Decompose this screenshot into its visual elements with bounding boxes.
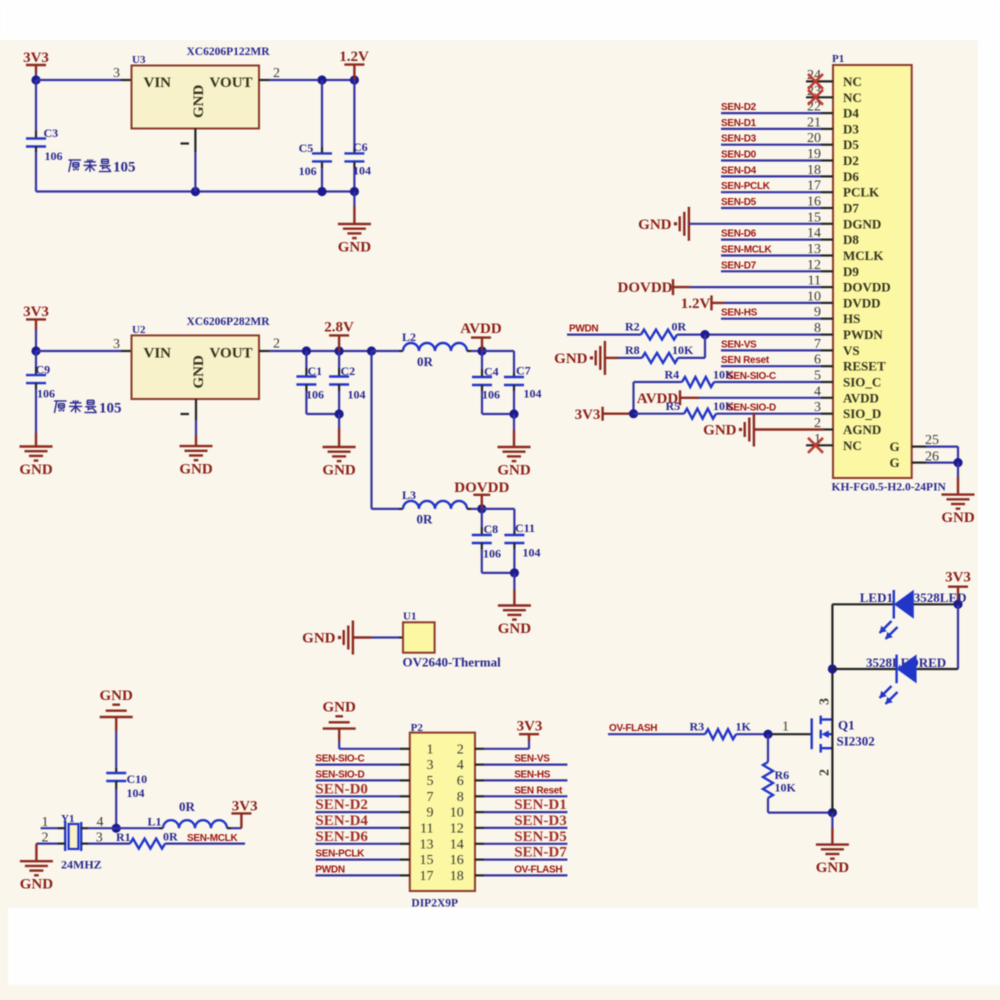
svg-text:DOVDD: DOVDD (618, 280, 673, 296)
svg-text:3V3: 3V3 (232, 799, 258, 815)
svg-text:18: 18 (450, 869, 464, 884)
svg-text:17: 17 (420, 869, 434, 884)
svg-text:3: 3 (427, 758, 434, 773)
svg-text:SEN-PCLK: SEN-PCLK (721, 181, 771, 192)
svg-text:DGND: DGND (843, 216, 881, 231)
svg-text:3528LED: 3528LED (914, 590, 967, 605)
svg-text:D7: D7 (843, 201, 859, 216)
svg-text:SEN-VS: SEN-VS (514, 754, 550, 765)
svg-text:C4: C4 (484, 365, 499, 379)
svg-text:SEN-MCLK: SEN-MCLK (187, 833, 238, 844)
svg-text:2: 2 (273, 337, 280, 352)
svg-text:AVDD: AVDD (460, 321, 502, 337)
svg-text:D8: D8 (843, 232, 859, 247)
svg-text:SIO_C: SIO_C (843, 375, 881, 390)
svg-text:SEN-SIO-D: SEN-SIO-D (315, 769, 364, 780)
svg-text:16: 16 (450, 853, 464, 868)
svg-text:GND: GND (322, 463, 356, 479)
svg-text:SEN-D7: SEN-D7 (721, 260, 757, 271)
svg-text:P1: P1 (832, 53, 844, 65)
svg-text:104: 104 (127, 786, 145, 800)
svg-text:P2: P2 (411, 722, 424, 734)
svg-text:R1: R1 (116, 830, 131, 844)
svg-text:D4: D4 (843, 106, 859, 121)
svg-text:SEN Reset: SEN Reset (514, 785, 563, 796)
svg-text:SEN-SIO-D: SEN-SIO-D (727, 403, 776, 414)
svg-text:NC: NC (843, 438, 862, 453)
svg-text:25: 25 (925, 433, 939, 448)
svg-text:3: 3 (818, 698, 833, 705)
svg-text:OV-FLASH: OV-FLASH (609, 723, 657, 734)
svg-text:SEN-SIO-C: SEN-SIO-C (727, 371, 776, 382)
svg-text:106: 106 (483, 547, 501, 561)
svg-text:104: 104 (524, 387, 542, 401)
svg-text:U1: U1 (403, 611, 416, 623)
svg-text:C11: C11 (515, 521, 535, 535)
svg-text:3: 3 (113, 66, 120, 81)
svg-text:0R: 0R (672, 320, 687, 334)
svg-text:2.8V: 2.8V (324, 320, 354, 336)
svg-text:SEN-PCLK: SEN-PCLK (315, 849, 365, 860)
svg-text:14: 14 (450, 837, 464, 852)
svg-text:AGND: AGND (843, 422, 881, 437)
svg-text:106: 106 (45, 149, 63, 163)
svg-text:PCLK: PCLK (843, 185, 880, 200)
svg-text:C1: C1 (308, 364, 323, 378)
svg-text:SEN-D6: SEN-D6 (721, 229, 757, 240)
svg-text:D6: D6 (843, 169, 859, 184)
svg-text:SEN Reset: SEN Reset (721, 355, 770, 366)
svg-text:R2: R2 (625, 320, 640, 334)
svg-text:GND: GND (816, 860, 850, 876)
svg-text:KH-FG0.5-H2.0-24PIN: KH-FG0.5-H2.0-24PIN (832, 482, 947, 494)
svg-text:3V3: 3V3 (23, 50, 49, 66)
svg-text:GND: GND (323, 700, 357, 716)
svg-text:0R: 0R (163, 830, 178, 844)
svg-text:SEN-D1: SEN-D1 (721, 118, 757, 129)
svg-text:106: 106 (482, 388, 500, 402)
svg-text:VS: VS (843, 343, 860, 358)
svg-text:RESET: RESET (843, 359, 886, 374)
svg-text:VIN: VIN (144, 75, 172, 91)
svg-text:OV2640-Thermal: OV2640-Thermal (403, 655, 502, 670)
svg-text:105: 105 (113, 160, 136, 176)
svg-text:C2: C2 (341, 364, 356, 378)
svg-text:DIP2X9P: DIP2X9P (411, 898, 458, 910)
svg-text:SEN-VS: SEN-VS (721, 339, 757, 350)
svg-text:1.2V: 1.2V (681, 296, 711, 312)
svg-text:D9: D9 (843, 264, 859, 279)
svg-text:SEN-D3: SEN-D3 (514, 813, 567, 829)
svg-text:C5: C5 (299, 141, 314, 155)
svg-text:GND: GND (497, 463, 531, 479)
svg-text:GND: GND (941, 510, 975, 526)
svg-text:C9: C9 (36, 363, 51, 377)
svg-text:SEN-D4: SEN-D4 (315, 813, 368, 829)
svg-text:GND: GND (100, 688, 134, 704)
svg-text:2: 2 (273, 66, 280, 81)
svg-text:L1: L1 (148, 815, 162, 829)
svg-text:SEN-D6: SEN-D6 (315, 829, 368, 845)
svg-text:D2: D2 (843, 153, 859, 168)
svg-text:6: 6 (457, 774, 464, 789)
svg-text:SEN-D2: SEN-D2 (721, 102, 757, 113)
svg-text:GND: GND (638, 217, 672, 233)
svg-text:1.2V: 1.2V (339, 49, 369, 65)
svg-text:R3: R3 (690, 720, 705, 734)
svg-text:15: 15 (420, 853, 434, 868)
svg-text:LED1: LED1 (860, 590, 893, 605)
svg-text:1: 1 (782, 720, 789, 735)
svg-text:SEN-D5: SEN-D5 (721, 197, 757, 208)
svg-text:0R: 0R (417, 512, 434, 527)
svg-text:5: 5 (427, 774, 434, 789)
svg-text:OV-FLASH: OV-FLASH (514, 864, 562, 875)
svg-text:4: 4 (457, 758, 464, 773)
svg-text:106: 106 (299, 164, 317, 178)
svg-text:SEN-D2: SEN-D2 (315, 797, 368, 813)
svg-text:GND: GND (19, 462, 53, 478)
svg-text:GND: GND (338, 240, 372, 256)
svg-text:GND: GND (191, 355, 207, 389)
svg-text:DOVDD: DOVDD (843, 280, 891, 295)
svg-text:12: 12 (450, 821, 464, 836)
svg-text:D3: D3 (843, 121, 859, 136)
svg-text:XC6206P122MR: XC6206P122MR (186, 46, 270, 58)
svg-text:10K: 10K (672, 343, 694, 357)
svg-text:L3: L3 (402, 488, 416, 502)
svg-text:C10: C10 (127, 772, 148, 786)
svg-text:XC6206P282MR: XC6206P282MR (186, 316, 270, 328)
svg-text:GND: GND (20, 877, 54, 893)
svg-text:DVDD: DVDD (843, 295, 881, 310)
svg-text:R5: R5 (666, 399, 681, 413)
svg-text:Q1: Q1 (838, 718, 855, 733)
svg-text:SEN-D3: SEN-D3 (721, 134, 757, 145)
svg-text:SIO_D: SIO_D (843, 406, 881, 421)
svg-text:R8: R8 (625, 343, 640, 357)
svg-text:3V3: 3V3 (945, 570, 971, 586)
svg-text:9: 9 (427, 806, 434, 821)
svg-text:SEN-MCLK: SEN-MCLK (721, 245, 772, 256)
svg-text:1K: 1K (736, 720, 752, 734)
svg-text:3V3: 3V3 (575, 407, 601, 423)
svg-text:SI2302: SI2302 (837, 734, 875, 749)
svg-text:VOUT: VOUT (210, 75, 253, 91)
svg-text:C3: C3 (44, 126, 59, 140)
svg-text:2: 2 (457, 742, 464, 757)
svg-text:SEN-SIO-C: SEN-SIO-C (315, 754, 364, 765)
svg-text:NC: NC (843, 74, 862, 89)
svg-text:L2: L2 (402, 330, 416, 344)
svg-text:AVDD: AVDD (843, 390, 879, 405)
svg-text:VOUT: VOUT (210, 346, 253, 362)
svg-text:3V3: 3V3 (23, 304, 49, 320)
svg-text:GND: GND (498, 621, 532, 637)
svg-text:26: 26 (925, 450, 939, 465)
svg-text:GND: GND (302, 631, 336, 647)
svg-text:SEN-D5: SEN-D5 (514, 829, 567, 845)
svg-text:U2: U2 (132, 324, 146, 336)
svg-text:0R: 0R (417, 354, 434, 369)
svg-text:Y1: Y1 (61, 813, 74, 825)
svg-text:106: 106 (37, 387, 55, 401)
svg-text:2: 2 (818, 769, 833, 776)
svg-text:104: 104 (348, 388, 366, 402)
svg-text:13: 13 (420, 837, 434, 852)
svg-text:U3: U3 (132, 54, 146, 66)
svg-text:0R: 0R (179, 799, 196, 814)
svg-text:3V3: 3V3 (517, 719, 543, 735)
svg-text:SEN-D7: SEN-D7 (514, 845, 567, 861)
svg-text:C7: C7 (516, 364, 531, 378)
svg-text:3: 3 (96, 831, 103, 846)
svg-text:SEN-HS: SEN-HS (514, 769, 551, 780)
svg-text:GND: GND (179, 462, 213, 478)
svg-text:GND: GND (554, 351, 588, 367)
svg-text:24MHZ: 24MHZ (61, 858, 102, 872)
svg-text:PWDN: PWDN (843, 327, 883, 342)
svg-text:SEN-HS: SEN-HS (721, 308, 758, 319)
svg-text:D5: D5 (843, 137, 859, 152)
svg-text:GND: GND (703, 423, 737, 439)
svg-text:7: 7 (427, 790, 434, 805)
svg-text:SEN-D0: SEN-D0 (315, 781, 368, 797)
svg-text:C6: C6 (353, 140, 368, 154)
svg-text:NC: NC (843, 90, 862, 105)
svg-text:G: G (890, 455, 900, 470)
svg-text:SEN-D0: SEN-D0 (721, 150, 757, 161)
svg-text:3: 3 (113, 337, 120, 352)
svg-text:8: 8 (457, 790, 464, 805)
svg-text:SEN-D1: SEN-D1 (514, 797, 567, 813)
svg-text:PWDN: PWDN (315, 864, 344, 875)
svg-text:2: 2 (42, 831, 49, 846)
svg-text:4: 4 (97, 815, 104, 830)
svg-text:11: 11 (420, 821, 433, 836)
svg-text:10K: 10K (775, 781, 797, 795)
svg-text:104: 104 (523, 546, 541, 560)
svg-text:R4: R4 (665, 368, 680, 382)
svg-text:1: 1 (427, 742, 434, 757)
svg-text:G: G (890, 439, 900, 454)
svg-text:MCLK: MCLK (843, 248, 884, 263)
svg-text:1: 1 (42, 815, 49, 830)
svg-text:PWDN: PWDN (569, 324, 598, 335)
svg-text:C8: C8 (484, 522, 499, 536)
svg-text:106: 106 (306, 388, 324, 402)
svg-text:10: 10 (450, 806, 464, 821)
svg-text:105: 105 (99, 401, 122, 417)
svg-text:104: 104 (353, 164, 371, 178)
svg-text:VIN: VIN (144, 346, 172, 362)
svg-text:HS: HS (843, 311, 860, 326)
svg-text:SEN-D4: SEN-D4 (721, 165, 757, 176)
svg-text:GND: GND (191, 85, 207, 119)
